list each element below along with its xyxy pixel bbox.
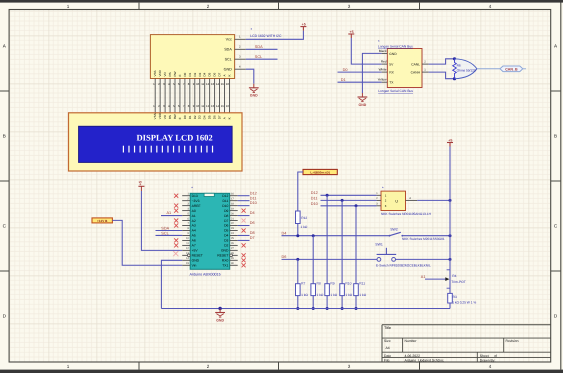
svg-text:12: 12: [206, 82, 210, 86]
svg-text:10: 10: [196, 104, 200, 108]
junction (R10/rail): [341, 307, 344, 310]
svg-text:R10: R10: [345, 281, 351, 285]
wire R12 to net D4: [297, 224, 299, 236]
wire harness to CAN_B port: [478, 68, 501, 70]
resistor R11 1 kOhm: [354, 281, 367, 297]
resistor R8 1 kOhm: [311, 281, 324, 297]
svg-text:SW2: SW2: [390, 228, 398, 232]
svg-text:D8: D8: [224, 214, 228, 218]
svg-text:4-06-2022: 4-06-2022: [405, 354, 421, 358]
resistor R12: [296, 211, 308, 229]
junction (D12/R9 column): [326, 194, 329, 197]
wire net SDA (A4): [156, 229, 183, 231]
CAN module Longan Serial CAN Bus: [378, 39, 422, 87]
svg-text:1 kΩ 0,25 W 1 %: 1 kΩ 0,25 W 1 %: [452, 300, 476, 304]
svg-text:D0: D0: [343, 68, 348, 72]
no-ERC marks right pins: [242, 209, 246, 268]
svg-text:RW: RW: [173, 114, 177, 119]
LCD I2C module right pin stubs with pin numbers 1-4: [235, 36, 246, 69]
svg-text:D3: D3: [224, 239, 228, 243]
svg-text:D7: D7: [218, 72, 222, 76]
wire SW2 to +5 vertical: [402, 235, 450, 237]
wire CAN 5V to +5: [351, 38, 381, 64]
CAN right pin stubs, numbers 2,1: [422, 61, 429, 73]
wire net D10 (arduino pin): [238, 205, 250, 207]
svg-text:+5: +5: [138, 181, 142, 185]
svg-text:D6: D6: [282, 255, 287, 259]
junction (D6/R7): [296, 258, 299, 261]
svg-text:White: White: [379, 68, 387, 72]
svg-text:RS: RS: [168, 115, 172, 119]
wire net D4: [282, 235, 390, 237]
svg-text:SCL: SCL: [161, 231, 168, 235]
switch SW2 NKK M2011SS3G01: [389, 228, 404, 237]
wire TPL label to R12: [298, 172, 303, 211]
wire SDA: [246, 48, 278, 50]
wire CAN GND to ground: [362, 53, 381, 93]
power port +12V label box: [92, 218, 112, 223]
svg-text:VO: VO: [163, 114, 167, 119]
svg-text:D5: D5: [208, 72, 212, 76]
wire bus LCD data lines (16 pins): [155, 79, 229, 113]
junction (D10/R11 column): [355, 204, 358, 207]
wire R10 to ground rail: [341, 296, 343, 309]
harness connector (CAN bundle): [455, 59, 477, 79]
svg-text:Revision: Revision: [506, 339, 519, 343]
svg-text:D1: D1: [188, 72, 192, 76]
svg-text:15: 15: [221, 104, 225, 108]
svg-text:1: 1: [67, 364, 70, 369]
svg-text:13: 13: [211, 82, 215, 86]
junction (SW2 / +5 vertical): [449, 234, 452, 237]
microcontroller module U1 Arduino ABX00015: [190, 186, 230, 270]
svg-text:GND: GND: [221, 249, 229, 253]
svg-text:D4: D4: [224, 234, 228, 238]
svg-text:D6: D6: [213, 115, 217, 119]
svg-text:1 kΩ: 1 kΩ: [301, 225, 308, 229]
svg-text:10: 10: [196, 82, 200, 86]
svg-text:D5: D5: [208, 115, 212, 119]
svg-text:3: 3: [348, 364, 351, 369]
ground GND (CAN): [358, 93, 368, 107]
svg-text:SDA: SDA: [255, 45, 263, 49]
wire GND pin to ground rail: [161, 260, 182, 308]
svg-text:D4: D4: [203, 72, 207, 76]
ground GND (LCD I2C): [249, 84, 259, 98]
svg-text:D4: D4: [203, 115, 207, 119]
svg-text:LCD 1602 WITH I2C: LCD 1602 WITH I2C: [250, 34, 282, 38]
svg-text:D1: D1: [341, 78, 346, 82]
svg-text:R11: R11: [359, 281, 365, 285]
svg-text:4: 4: [489, 364, 492, 369]
svg-text:SDA: SDA: [161, 226, 169, 230]
svg-text:+5: +5: [302, 22, 306, 26]
CAN left pin stubs: [382, 53, 388, 82]
svg-text:Date: Date: [384, 354, 391, 358]
svg-text:E-Switch RP8100B2M2CEBLKBLKNIL: E-Switch RP8100B2M2CEBLKBLKNIL: [376, 264, 431, 268]
wire net D11 (arduino pin): [238, 200, 250, 202]
svg-text:D7: D7: [218, 115, 222, 119]
svg-text:D9: D9: [224, 209, 228, 213]
svg-text:R4: R4: [452, 274, 456, 278]
wire Vin to +12V: [112, 220, 182, 265]
svg-text:SCL: SCL: [225, 58, 232, 62]
wire rotary C to +5 rail: [417, 199, 450, 201]
wire net D12 (arduino pin): [238, 195, 250, 197]
junction (R11/rail): [355, 307, 358, 310]
wire net D8 (arduino pin): [238, 234, 250, 236]
svg-text:11: 11: [201, 104, 204, 108]
svg-text:13: 13: [211, 104, 215, 108]
svg-text:12: 12: [206, 104, 210, 108]
svg-text:+5V: +5V: [192, 249, 199, 253]
svg-text:VSS: VSS: [153, 113, 157, 119]
svg-text:D6: D6: [250, 221, 255, 225]
svg-text:A4: A4: [386, 346, 390, 350]
svg-text:1: 1: [67, 4, 70, 9]
svg-text:D5: D5: [224, 229, 228, 233]
svg-text:Arduino ABX00015: Arduino ABX00015: [190, 272, 221, 276]
svg-text:CAN_B: CAN_B: [505, 67, 518, 71]
svg-text:GND: GND: [250, 94, 258, 98]
svg-text:A1: A1: [421, 275, 426, 279]
svg-text:RS: RS: [168, 72, 172, 76]
comment label LCD 1602 WITH I2C: [250, 27, 282, 38]
junction (R7/rail): [296, 307, 299, 310]
svg-text:E: E: [178, 117, 182, 119]
svg-text:D10: D10: [222, 204, 228, 208]
svg-text:R3: R3: [453, 295, 457, 299]
svg-text:1 kΩ: 1 kΩ: [345, 293, 352, 297]
svg-text:B: B: [554, 134, 557, 139]
ground GND (rail): [215, 309, 225, 323]
svg-text:RW: RW: [173, 71, 177, 76]
junction (D4/R8 column): [312, 234, 315, 237]
wire net D11 to rotary switch: [321, 199, 377, 201]
wire net D1 (CAN TX): [338, 81, 382, 83]
svg-text:D12: D12: [222, 194, 228, 198]
svg-text:A6: A6: [192, 239, 196, 243]
svg-text:1 kΩ: 1 kΩ: [317, 293, 324, 297]
svg-text:A2: A2: [192, 219, 196, 223]
svg-text:RESET: RESET: [217, 254, 228, 258]
junction (SW1 / +5 vertical): [449, 258, 452, 261]
wire net D6 (arduino pin): [238, 225, 250, 227]
svg-text:R9: R9: [330, 281, 334, 285]
wire net A1: [161, 215, 182, 217]
svg-text:D13: D13: [192, 194, 198, 198]
display module DISPLAY LCD 1602: [69, 112, 243, 171]
resistor R6 (CAN terminator): [453, 59, 476, 79]
svg-text:D11: D11: [223, 199, 229, 203]
svg-text:14: 14: [216, 82, 220, 86]
svg-text:Ohms 59/120: Ohms 59/120: [457, 68, 476, 72]
svg-text:Longan Serial CAN Bus: Longan Serial CAN Bus: [378, 89, 413, 93]
svg-text:D2: D2: [224, 244, 228, 248]
svg-text:GND: GND: [389, 52, 397, 56]
svg-text:Number: Number: [405, 339, 418, 343]
pot wiper arrow: [445, 277, 449, 281]
junction (R12/D4): [296, 234, 299, 237]
svg-text:R8: R8: [317, 281, 321, 285]
svg-text:Vin: Vin: [192, 263, 197, 267]
svg-text:NKK Switches M2011SS3G01: NKK Switches M2011SS3G01: [402, 237, 445, 241]
svg-text:SDA: SDA: [224, 48, 232, 52]
svg-text:R7: R7: [301, 281, 305, 285]
svg-text:Title: Title: [384, 326, 391, 330]
svg-text:GND: GND: [192, 259, 200, 263]
svg-text:16: 16: [226, 82, 230, 86]
svg-text:K: K: [227, 117, 231, 119]
rotary switch SW NKK NR01105ANG13-1H: [381, 185, 406, 210]
svg-text:Yellow: Yellow: [378, 78, 388, 82]
no-ERC marks left pins: [173, 194, 178, 257]
wire R7 to ground rail: [297, 296, 299, 309]
wire net D12 to rotary switch: [321, 194, 377, 196]
svg-text:D7: D7: [224, 219, 228, 223]
svg-text:A1: A1: [167, 211, 172, 215]
svg-text:GND: GND: [216, 318, 224, 322]
power +5 (arduino): [138, 181, 144, 191]
junction (C wire / +5 vertical): [449, 199, 452, 202]
wire D4 to R8: [312, 236, 314, 284]
LCD 1602 I2C interface module: [150, 35, 234, 79]
svg-text:~3V3: ~3V3: [192, 199, 200, 203]
arduino left pin stubs, numbers 1-15: [182, 192, 190, 265]
svg-text:RESET: RESET: [192, 254, 203, 258]
svg-text:AREF: AREF: [192, 204, 201, 208]
svg-text:SW1: SW1: [375, 243, 383, 247]
title block: [382, 325, 551, 363]
svg-text:B: B: [3, 134, 6, 139]
svg-text:Black: Black: [379, 49, 387, 53]
svg-text:1 kΩ: 1 kΩ: [330, 293, 337, 297]
svg-text:1 kΩ: 1 kΩ: [301, 293, 308, 297]
wire D10 to R11: [355, 206, 357, 284]
pushbutton SW1 E-Switch: [375, 243, 396, 262]
svg-text:Trim-POT: Trim-POT: [451, 280, 465, 284]
wire net D6 to pushbutton SW1: [282, 258, 378, 260]
svg-text:14: 14: [216, 104, 220, 108]
svg-text:15: 15: [221, 82, 225, 86]
resistor R7 1 kOhm: [296, 281, 309, 297]
wire R8 to ground rail: [312, 296, 314, 309]
wire SW1 to +5 vertical: [396, 258, 451, 260]
svg-text:CANH: CANH: [411, 70, 421, 74]
svg-text:D12: D12: [250, 191, 257, 195]
svg-text:D10: D10: [311, 202, 318, 206]
wire ground rail: [161, 308, 450, 310]
svg-text:A: A: [223, 117, 227, 119]
wire R9 to ground rail: [326, 296, 328, 309]
svg-text:A5: A5: [192, 234, 196, 238]
svg-text:Sheet: Sheet: [480, 354, 489, 358]
svg-text:+5: +5: [448, 138, 452, 142]
svg-text:NKK Switches NR01105ANG13-1H: NKK Switches NR01105ANG13-1H: [381, 212, 432, 216]
wire D11 to R10: [341, 200, 343, 283]
svg-text:D6: D6: [224, 224, 228, 228]
svg-text:A: A: [223, 74, 227, 76]
svg-text:of: of: [494, 354, 497, 358]
wire net SCL (A5): [156, 234, 183, 236]
svg-text:D11: D11: [311, 197, 318, 201]
display top pin numbers: [153, 104, 229, 108]
wire net D7 (arduino pin): [238, 239, 250, 241]
svg-text:A1: A1: [192, 214, 196, 218]
svg-text:A4: A4: [192, 229, 196, 233]
svg-text:RX0: RX0: [222, 259, 229, 263]
svg-text:2: 2: [207, 4, 210, 9]
svg-text:File: File: [384, 358, 390, 362]
svg-text:D8: D8: [250, 231, 255, 235]
junction (CANL/R6): [453, 57, 456, 60]
wire net D10 to rotary switch: [321, 205, 377, 207]
wire D12 to R9: [326, 195, 328, 283]
svg-text:D11: D11: [250, 196, 257, 200]
junction (D11/R10 column): [341, 199, 344, 202]
svg-text:L:4(B50m:xD): L:4(B50m:xD): [310, 171, 330, 175]
svg-text:Drawn By:: Drawn By:: [480, 358, 496, 362]
svg-text:A0: A0: [192, 209, 196, 213]
junction (rail/GND): [218, 307, 221, 310]
svg-text:R6: R6: [457, 63, 461, 67]
port CAN_B: [500, 66, 526, 72]
potentiometer R4 Trim-POT: [447, 270, 466, 288]
svg-text:+12V B: +12V B: [97, 219, 108, 223]
svg-text:A7: A7: [192, 244, 196, 248]
svg-text:VDD: VDD: [158, 112, 162, 119]
resistor R3 1 kOhm 0,25 W 1%: [448, 293, 477, 304]
svg-text:D4: D4: [250, 211, 255, 215]
svg-text:GND: GND: [224, 68, 233, 72]
svg-text:D3: D3: [198, 115, 202, 119]
wire Vcc to +5: [246, 31, 304, 40]
svg-text:1 kΩ: 1 kΩ: [359, 293, 366, 297]
svg-text:D0: D0: [183, 115, 187, 119]
wire +5 vertical rail: [449, 147, 451, 294]
wire CANL to terminator: [429, 59, 455, 64]
net label TPL (highlighted): [303, 169, 337, 174]
svg-text:DISPLAY LCD 1602: DISPLAY LCD 1602: [136, 132, 212, 142]
wire +5 to pin 12: [141, 191, 182, 250]
svg-text:A3: A3: [192, 224, 196, 228]
svg-text:SCL: SCL: [255, 55, 262, 59]
power +5 (CAN): [348, 30, 354, 38]
svg-text:+5: +5: [350, 30, 354, 34]
svg-text:D1: D1: [188, 115, 192, 119]
rotary switch right pin stub 4 (C): [406, 197, 418, 201]
junction (R8/rail): [312, 307, 315, 310]
resistor R10 1 kOhm: [340, 281, 353, 297]
svg-text:VSS: VSS: [153, 70, 157, 76]
wire R11 to ground rail: [355, 296, 357, 309]
power +5 (right rail): [447, 138, 453, 146]
wire net D4 (arduino pin): [238, 215, 250, 217]
wire GND of I2C module: [246, 69, 254, 84]
svg-text:GND: GND: [359, 103, 367, 107]
svg-text:2: 2: [207, 364, 210, 369]
svg-text:D6: D6: [213, 72, 217, 76]
svg-text:VO: VO: [163, 71, 167, 76]
junction (CANH/R6): [453, 77, 456, 80]
svg-text:D2: D2: [193, 72, 197, 76]
svg-text:VDD: VDD: [158, 69, 162, 76]
svg-text:16: 16: [226, 104, 230, 108]
wire SCL: [246, 58, 278, 60]
svg-text:C: C: [395, 200, 399, 203]
svg-text:TX1: TX1: [222, 263, 228, 267]
svg-text:RX: RX: [389, 70, 394, 74]
svg-text:D0: D0: [183, 72, 187, 76]
svg-text:Red: Red: [381, 60, 387, 64]
wire D6 to R7: [297, 259, 299, 283]
arduino right pin stubs, numbers 16-30: [230, 192, 238, 265]
svg-text:Size: Size: [384, 339, 391, 343]
svg-text:D3: D3: [198, 72, 202, 76]
svg-text:D12: D12: [311, 191, 318, 195]
svg-text:Arduino_Updated.SchDoc: Arduino_Updated.SchDoc: [405, 358, 445, 362]
svg-text:R12: R12: [301, 216, 307, 220]
svg-text:Vcc: Vcc: [226, 38, 232, 42]
svg-text:D4: D4: [282, 231, 287, 235]
svg-text:4: 4: [489, 4, 492, 9]
wire net D0 (CAN RX): [338, 71, 382, 73]
svg-text:D2: D2: [193, 115, 197, 119]
wire A1 to pot wiper: [425, 278, 446, 280]
wire CANH to terminator: [429, 72, 455, 79]
LCD I2C module bottom pin numbers: [153, 82, 229, 86]
svg-text:E: E: [178, 74, 182, 76]
svg-text:3: 3: [348, 4, 351, 9]
power +5 (LCD): [300, 22, 306, 30]
svg-text:11: 11: [201, 82, 204, 86]
wire R3 to ground rail: [449, 303, 451, 309]
junction (R9/rail): [326, 307, 329, 310]
resistor R9 1 kOhm: [325, 281, 338, 297]
rotary switch left pin stubs 1,2,3: [376, 192, 381, 206]
svg-text:K: K: [227, 74, 231, 76]
svg-text:D7: D7: [250, 236, 255, 240]
svg-text:CANL: CANL: [411, 62, 420, 66]
svg-text:D10: D10: [250, 201, 257, 205]
